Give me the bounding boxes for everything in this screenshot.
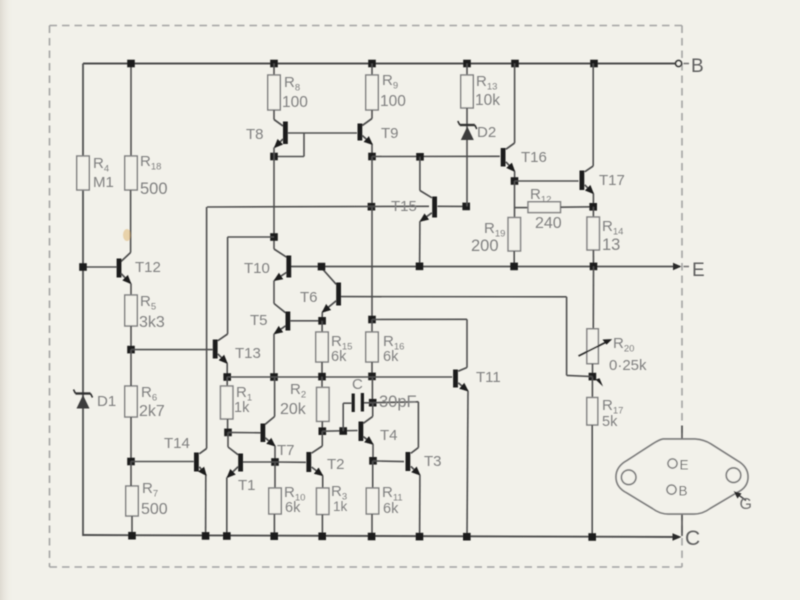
wire T1 emitter to bottom rail: [226, 477, 228, 536]
resistor R13 (value 10k): [466, 64, 468, 76]
wire T8/T9 base bus y=133: [288, 132, 357, 134]
wire T4 emitter to T3 base node: [372, 444, 374, 461]
junction x=227 y=377 (left end of bus): [223, 373, 231, 381]
wire R19 to E rail: [513, 251, 515, 266]
wire T5 emitter down to long bus: [273, 334, 275, 377]
resistor R9 (value 100): [371, 64, 373, 76]
junction x=373 y=460.8: [369, 457, 377, 465]
wire current-mirror bus y=156.5 to T16 base: [372, 155, 500, 157]
svg-text:1k: 1k: [234, 400, 250, 416]
svg-text:T7: T7: [277, 442, 295, 459]
svg-text:B: B: [679, 484, 688, 499]
transistor T9: [360, 110, 372, 145]
wire T17 emitter node: [592, 194, 594, 207]
junction x=274 y=237 (wire from T13 collector): [270, 233, 278, 241]
wire T16 emitter column down to R19: [514, 181, 516, 218]
junction top rail / R18 column: [127, 60, 135, 68]
resistor R1 (value 1k): [226, 377, 228, 386]
transistor T12: [119, 253, 131, 284]
resistor R12 (value 240) horizontal: [515, 202, 593, 213]
transistor T7: [263, 417, 275, 447]
dashed enclosure border (package boundary): [50, 26, 683, 568]
junction top rail x=467: [463, 60, 471, 68]
terminal E: [673, 263, 682, 270]
transistor T11: [456, 368, 469, 392]
junction x=228 y=432.4: [224, 429, 232, 437]
junction bottom rail x=274: [270, 532, 278, 540]
wire junction to R7: [130, 462, 132, 487]
wire T17 base bus y=181: [515, 180, 579, 182]
wire T14 collector riser x=206.5: [206, 207, 208, 449]
wire T13 collector link y=237: [228, 236, 275, 238]
zener diode D1: [74, 390, 93, 409]
resistor R4 (value M1): [77, 156, 90, 190]
wire R7 bottom to bottom rail: [131, 516, 133, 536]
wire x=274 node to T10 collector: [273, 148, 275, 250]
svg-text:T3: T3: [424, 453, 442, 470]
svg-text:100: 100: [380, 93, 406, 110]
wire T2 base: [275, 461, 306, 463]
wire R20 to wiper junction: [592, 364, 594, 377]
terminal B: [676, 61, 682, 67]
wire T7 base: [228, 431, 261, 433]
wire T8 base tie stub: [303, 133, 305, 157]
junction T1/T2 base node x=275 y=462: [271, 458, 279, 466]
svg-text:C: C: [685, 527, 700, 550]
wire bottom rail (node C) y=536: [83, 535, 679, 537]
svg-text:6k: 6k: [285, 500, 301, 516]
wire T1 base to node: [243, 461, 275, 463]
wire T9 emitter to node: [371, 145, 373, 157]
svg-text:T9: T9: [381, 125, 399, 142]
svg-text:E: E: [680, 458, 689, 473]
wire long base bus y=377 to T11: [227, 376, 452, 378]
wire T16 emitter node: [514, 171, 516, 181]
wire T7 emitter node to base junction: [274, 446, 276, 462]
terminal C: [673, 533, 682, 541]
transistor T15: [420, 157, 435, 222]
junction E rail x=593.5: [590, 263, 598, 271]
svg-text:T8: T8: [246, 126, 264, 143]
svg-text:T5: T5: [250, 312, 268, 329]
resistor R2 (value 20k): [321, 377, 323, 388]
wire left rail x=83: [82, 64, 84, 537]
pin E of package: [668, 459, 677, 468]
svg-text:13: 13: [602, 236, 620, 254]
junction x=593 y=206.8: [589, 203, 597, 211]
junction capacitor left stub on T4 base wire: [339, 427, 347, 435]
junction E rail x=514: [510, 263, 518, 271]
junction y=157 x=420: [416, 153, 424, 161]
wire T13 base: [131, 349, 213, 351]
svg-text:T2: T2: [327, 456, 345, 473]
resistor R11 (value 6k): [372, 461, 374, 488]
svg-text:0·25k: 0·25k: [609, 357, 647, 374]
junction left rail / T12 base: [79, 263, 87, 271]
junction x=322 y=431.2: [319, 427, 327, 435]
wire T3 base: [373, 460, 404, 463]
wire T4 base: [322, 430, 357, 433]
svg-text:10k: 10k: [475, 92, 500, 109]
wire top supply rail (node B) y=63.5: [83, 63, 680, 65]
wire T7 collector up to bus: [274, 377, 276, 417]
junction x=372 y=156.5: [368, 153, 376, 161]
junction top rail x=372: [368, 60, 376, 68]
junction bottom rail x=372: [368, 533, 376, 541]
svg-text:T12: T12: [135, 259, 161, 276]
resistor R16 (value 6k): [371, 320, 373, 333]
junction x=372 y=319.5 (R16 top): [368, 316, 376, 324]
junction x=372 y=206.6: [368, 203, 376, 211]
transistor T17: [582, 64, 594, 194]
transistor T1: [227, 432, 240, 477]
svg-text:T17: T17: [599, 172, 625, 189]
svg-text:T13: T13: [235, 345, 261, 362]
wire R6 bottom to junction: [130, 417, 132, 462]
zener diode D2: [458, 121, 477, 140]
wire x=372 node down to y=206.5 bus: [371, 157, 373, 207]
wire link to T11 collector: [372, 318, 467, 320]
wire T14 base: [131, 461, 194, 463]
svg-text:T16: T16: [521, 149, 547, 166]
wire R5 bottom to junction: [130, 326, 132, 350]
svg-text:240: 240: [535, 215, 562, 232]
resistor R3 (value 1k): [316, 488, 329, 515]
wire R15 bottom to bus: [321, 362, 323, 377]
svg-text:20k: 20k: [280, 401, 307, 418]
wire T12 base to left rail: [83, 266, 117, 268]
svg-text:T4: T4: [380, 427, 398, 444]
svg-text:5k: 5k: [602, 414, 618, 430]
TO-3 package outline with pins E B and case G: [616, 426, 748, 537]
resistor R15 (value 6k): [321, 321, 323, 332]
svg-text:2k7: 2k7: [139, 403, 165, 420]
wire T11 emitter to bottom rail: [467, 391, 468, 537]
svg-text:1k: 1k: [333, 499, 348, 514]
wire junction to R6: [130, 350, 132, 386]
wire R2 bottom to T4 base junction: [321, 421, 323, 431]
wire R3 to bottom rail: [321, 515, 323, 537]
junction R6/R7/T14 base: [127, 458, 135, 466]
wire y=206.5 bus from T14 collector to T15: [207, 205, 429, 208]
pin B of package: [667, 485, 676, 494]
wire E rail junction down to R20: [592, 266, 594, 328]
resistor R18 (value 500): [125, 156, 138, 190]
junction T8 emitter node x=274 y=156.5: [270, 153, 278, 161]
resistor R7 (value 500): [126, 486, 139, 516]
junction x=372 y=376.4: [368, 373, 376, 381]
junction top rail x=274: [270, 60, 278, 68]
svg-text:500: 500: [141, 501, 168, 518]
transistor T3: [408, 448, 420, 475]
svg-text:200: 200: [471, 237, 499, 255]
junction x=322 y=376.6: [318, 373, 326, 381]
wire x=372 crossing E rail down to R16: [371, 207, 373, 320]
svg-text:T14: T14: [164, 435, 190, 452]
transistor T4: [361, 403, 373, 445]
junction bottom rail x=205.6: [202, 532, 210, 540]
wire T6 base bus y=296.6: [341, 296, 567, 298]
resistor R5 (value 3k3): [125, 295, 138, 326]
svg-text:100: 100: [282, 94, 308, 111]
wire R10 to bottom rail: [273, 514, 275, 536]
svg-text:6k: 6k: [383, 501, 399, 517]
transistor T6: [322, 268, 339, 312]
resistor R6 (value 2k7): [125, 386, 138, 417]
transistor T14: [196, 449, 206, 476]
wire T2 emitter to R3: [322, 476, 324, 488]
resistor R14 (value 13): [592, 207, 594, 217]
svg-text:E: E: [692, 260, 705, 281]
svg-text:D1: D1: [97, 393, 116, 410]
svg-text:3k3: 3k3: [139, 314, 165, 331]
transistor T5: [274, 304, 288, 334]
junction E rail / T6 collector x=321.5: [318, 263, 326, 271]
wire emitter rail (node E) y=266.5: [291, 266, 680, 268]
junction bottom rail / R7: [128, 532, 136, 540]
wire R11 to bottom rail: [371, 514, 373, 537]
junction bottom rail x=227: [223, 532, 231, 540]
wire bus junction down to capacitor node: [371, 376, 373, 402]
wire R1 bottom to T7-base junction: [227, 419, 229, 432]
case lead G pointer: [738, 495, 746, 501]
junction R5/R6/T13 base: [127, 346, 135, 354]
wire R18 bottom to T12 collector: [130, 190, 132, 253]
wire R17 to bottom rail: [591, 425, 593, 537]
junction x=592.4 y=376.6 (wiper tap): [589, 373, 597, 381]
transistor T10: [274, 249, 289, 281]
junction x=514.5 y=181: [511, 177, 519, 185]
svg-text:500: 500: [140, 180, 168, 198]
wire R18 column top: [130, 64, 132, 157]
junction bottom rail x=419.5: [416, 533, 424, 541]
wire R16 bottom to bus: [371, 362, 373, 376]
resistor R19 (value 200): [508, 218, 521, 252]
wire T6 emitter to junction: [321, 312, 323, 321]
junction bottom rail x=592.2: [588, 533, 596, 541]
junction capacitor right plate node: [369, 399, 377, 407]
junction y=206.4 x=466 (T15 base / D2 column): [462, 203, 470, 211]
svg-text:G: G: [740, 496, 752, 513]
junction x=322 y=320.8 (T5 base / R15 top): [318, 317, 326, 325]
svg-text:B: B: [691, 56, 704, 77]
wire T10 emitter to T5 collector: [273, 281, 275, 304]
junction E rail x=419.5: [416, 263, 424, 271]
svg-text:D2: D2: [477, 124, 496, 141]
svg-text:6k: 6k: [383, 349, 399, 365]
wire T15 emitter to E rail: [419, 221, 421, 266]
transistor T8 diode-connected: [274, 110, 285, 148]
wire T14 emitter to bottom rail: [205, 475, 207, 536]
resistor R17 (value 5k): [591, 377, 593, 398]
transistor T13: [215, 237, 227, 363]
wire T13 emitter to bus: [226, 363, 228, 377]
capacitor C 30pF: [343, 393, 373, 431]
wire T3 emitter to bottom rail: [419, 475, 421, 537]
junction bottom rail x=467: [463, 533, 471, 541]
transistor T16: [503, 64, 514, 172]
paper smudge near R18: [123, 229, 131, 241]
svg-text:30pF: 30pF: [379, 393, 417, 411]
transistor T2: [309, 431, 323, 475]
junction top rail x=515: [511, 60, 519, 68]
junction bottom rail x=322: [318, 533, 326, 541]
svg-text:T11: T11: [476, 369, 501, 386]
svg-text:C: C: [352, 376, 363, 393]
potentiometer R20 (value 0-25k): [579, 329, 613, 364]
wire feedback from T6 base bus corner: [566, 297, 568, 376]
wire R14 to E rail: [592, 250, 594, 266]
svg-text:T6: T6: [300, 289, 318, 306]
svg-text:M1: M1: [93, 174, 114, 191]
wire T5 base to x=322 column: [290, 320, 322, 322]
svg-text:T10: T10: [244, 260, 270, 277]
wire R13 to D2 and down to T15 base junction: [466, 108, 468, 206]
svg-text:T1: T1: [238, 477, 256, 494]
wire T12 emitter to R5: [130, 284, 132, 296]
junction top rail x=594: [590, 60, 598, 68]
svg-text:T15: T15: [391, 198, 417, 215]
svg-text:6k: 6k: [331, 349, 347, 365]
resistor R8 (value 100): [273, 64, 275, 76]
resistor R10 (value 6k): [274, 462, 276, 488]
wire capacitor node to T3 collector riser: [373, 401, 419, 404]
junction x=274 on y=377 bus: [270, 373, 278, 381]
